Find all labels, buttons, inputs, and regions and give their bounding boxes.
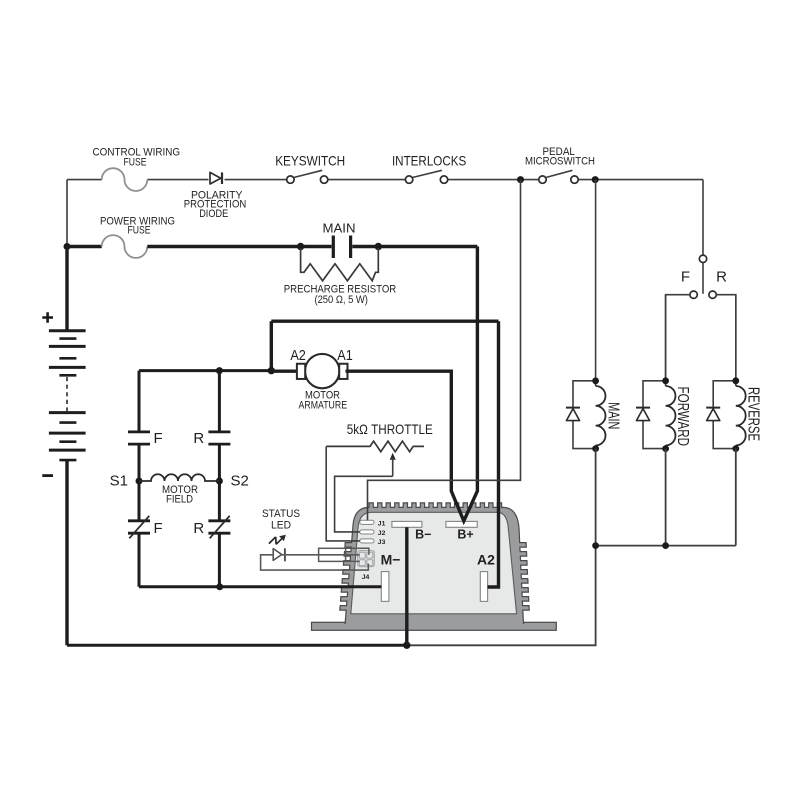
switch pedal microswitch [539, 170, 578, 183]
diode flyback for MAIN [573, 381, 596, 449]
node S2 branch top [216, 367, 223, 374]
svg-text:J2: J2 [378, 530, 386, 537]
terminal A2 stud [480, 572, 487, 602]
wire: wiper to J2 [335, 476, 393, 532]
svg-text:A1: A1 [337, 348, 353, 364]
svg-text:(250 Ω, 5 W): (250 Ω, 5 W) [314, 294, 368, 306]
node MAIN coil top [592, 377, 599, 384]
diode flyback for REVERSE [713, 381, 736, 449]
connector J4 [358, 551, 375, 567]
wire: field box bottom line to M- terminal [139, 585, 381, 588]
svg-text:F: F [154, 520, 163, 537]
wire: F contact to forward coil [666, 295, 690, 378]
diode polarity protection D1 [210, 172, 222, 184]
svg-text:J4: J4 [362, 574, 370, 581]
wire: field left branch vertical [138, 371, 141, 587]
node S2 [216, 478, 223, 485]
terminal B+ busbar [446, 521, 477, 527]
wire: field right branch vertical [218, 371, 221, 587]
wire: LED anode return loop [261, 555, 369, 570]
node junction on control rail (KSI tap) [517, 176, 524, 183]
node coil return junction main [592, 542, 599, 549]
coil REVERSE contactor winding [736, 386, 746, 445]
wire: REVERSE coil feed [735, 295, 737, 381]
inductor motor field winding [139, 474, 219, 481]
node field bottom junction [216, 583, 223, 590]
wire: B- to battery negative rail [405, 527, 408, 645]
node main contactor right [375, 243, 382, 250]
node main contactor left [297, 243, 304, 250]
svg-text:R: R [193, 430, 204, 447]
wire: KSI from keyswitch rail to J1 [368, 180, 521, 521]
svg-text:S1: S1 [110, 472, 128, 489]
wire: upper armature link line [271, 320, 498, 323]
coil FORWARD contactor winding [666, 386, 676, 445]
wire: A2 terminal drop [488, 321, 499, 587]
svg-text:J3: J3 [378, 539, 386, 546]
node REVERSE coil bottom [732, 445, 739, 452]
svg-text:ARMATURE: ARMATURE [299, 400, 348, 412]
switch F/R selector common [699, 255, 706, 262]
controller housing (heatsink body) [340, 503, 529, 624]
wire: throttle high side to J3 [326, 446, 360, 541]
node MAIN coil bottom [592, 445, 599, 452]
svg-text:FIELD: FIELD [166, 493, 193, 505]
fuse control wiring fuse [102, 168, 148, 191]
svg-text:INTERLOCKS: INTERLOCKS [392, 152, 466, 168]
node FORWARD coil bottom [662, 445, 669, 452]
wire: bottom rail thin segment to coil return [407, 546, 596, 646]
wire: coil returns to bottom rail [596, 449, 736, 546]
switch R contact [709, 291, 716, 298]
battery pack [42, 247, 85, 646]
wire: shell top conductor over J4 [346, 548, 369, 555]
switch interlocks [405, 170, 447, 183]
svg-text:R: R [193, 520, 204, 537]
svg-text:M−: M− [381, 552, 401, 568]
wire: armature A1 lead to B+ [346, 247, 478, 522]
svg-text:MAIN: MAIN [605, 402, 622, 429]
controller mounting flange [312, 622, 557, 630]
node armature A2 branch [268, 367, 275, 374]
svg-text:F: F [681, 269, 690, 286]
contactor MAIN tips [333, 236, 350, 259]
wire: power rail to main contactor [147, 245, 331, 248]
svg-text:B+: B+ [457, 528, 473, 542]
switch F contact [690, 291, 697, 298]
node B- / M- junction on bottom rail [403, 642, 410, 649]
wire: LED cathode to J4 [282, 554, 360, 556]
contactor R reverse tips (upper) [208, 432, 230, 444]
wiper arrow [390, 453, 396, 460]
node junction on control rail (to coils) [592, 176, 599, 183]
svg-text:FORWARD: FORWARD [674, 387, 691, 447]
wire: shell bottom conductor to J4 [346, 560, 360, 562]
node REVERSE coil top [732, 377, 739, 384]
node S1 [136, 478, 143, 485]
diode flyback for FORWARD [643, 381, 666, 449]
connector shell at J4 [319, 548, 346, 561]
svg-text:R: R [716, 269, 727, 286]
wire: power rail [67, 245, 102, 248]
wire: armature A2 lead [271, 370, 297, 373]
fuse power wiring fuse [102, 235, 148, 258]
svg-text:A2: A2 [290, 348, 306, 364]
svg-text:STATUS: STATUS [262, 508, 300, 520]
coil MAIN contactor winding [596, 386, 606, 445]
LED emission arrow [269, 537, 282, 544]
svg-text:FUSE: FUSE [128, 225, 151, 237]
contactor F tips (lower, normally closed) [128, 521, 150, 533]
contactor R tips (lower, normally closed) [208, 521, 230, 533]
wire: R contact to reverse coil [716, 295, 735, 378]
wire: main contactor right to B+ drop [352, 245, 477, 248]
svg-text:5kΩ THROTTLE: 5kΩ THROTTLE [347, 421, 433, 437]
battery positive junction [64, 243, 71, 250]
pin J1 [360, 520, 374, 524]
svg-text:S2: S2 [231, 472, 249, 489]
svg-text:DIODE: DIODE [199, 208, 228, 220]
contactor F forward tips (upper) [128, 432, 150, 444]
svg-text:MICROSWITCH: MICROSWITCH [525, 156, 595, 168]
svg-text:MAIN: MAIN [323, 220, 356, 235]
motor armature M1 [297, 354, 348, 388]
svg-text:B−: B− [415, 528, 431, 542]
svg-text:LED: LED [271, 520, 291, 532]
svg-text:F: F [154, 430, 163, 447]
wire: top control rail [67, 179, 703, 181]
wire: rail end down to F/R selector [702, 180, 704, 255]
wire: top control rail left vertical [66, 180, 68, 245]
terminal B- busbar [392, 521, 422, 527]
wire: field box top line [139, 369, 271, 372]
pin J2 [360, 530, 374, 534]
terminal M- stud [381, 572, 389, 602]
svg-text:REVERSE: REVERSE [744, 387, 761, 441]
wire: battery negative bottom rail [67, 644, 407, 647]
wire: MAIN coil feed [595, 180, 597, 381]
wire: left drop to armature node [270, 321, 273, 370]
pin J3 [360, 539, 374, 543]
switch keyswitch [287, 170, 328, 183]
svg-text:J1: J1 [378, 520, 386, 527]
svg-text:A2: A2 [477, 552, 495, 568]
svg-text:KEYSWITCH: KEYSWITCH [275, 152, 345, 168]
node FORWARD coil top [662, 377, 669, 384]
resistor precharge (250 ohm 5W) [301, 248, 379, 281]
controller inner face [351, 512, 517, 614]
LED status indicator [273, 548, 285, 561]
svg-text:FUSE: FUSE [124, 157, 147, 169]
wire: FORWARD coil feed [665, 295, 667, 381]
node coil return junction forward [662, 542, 669, 549]
